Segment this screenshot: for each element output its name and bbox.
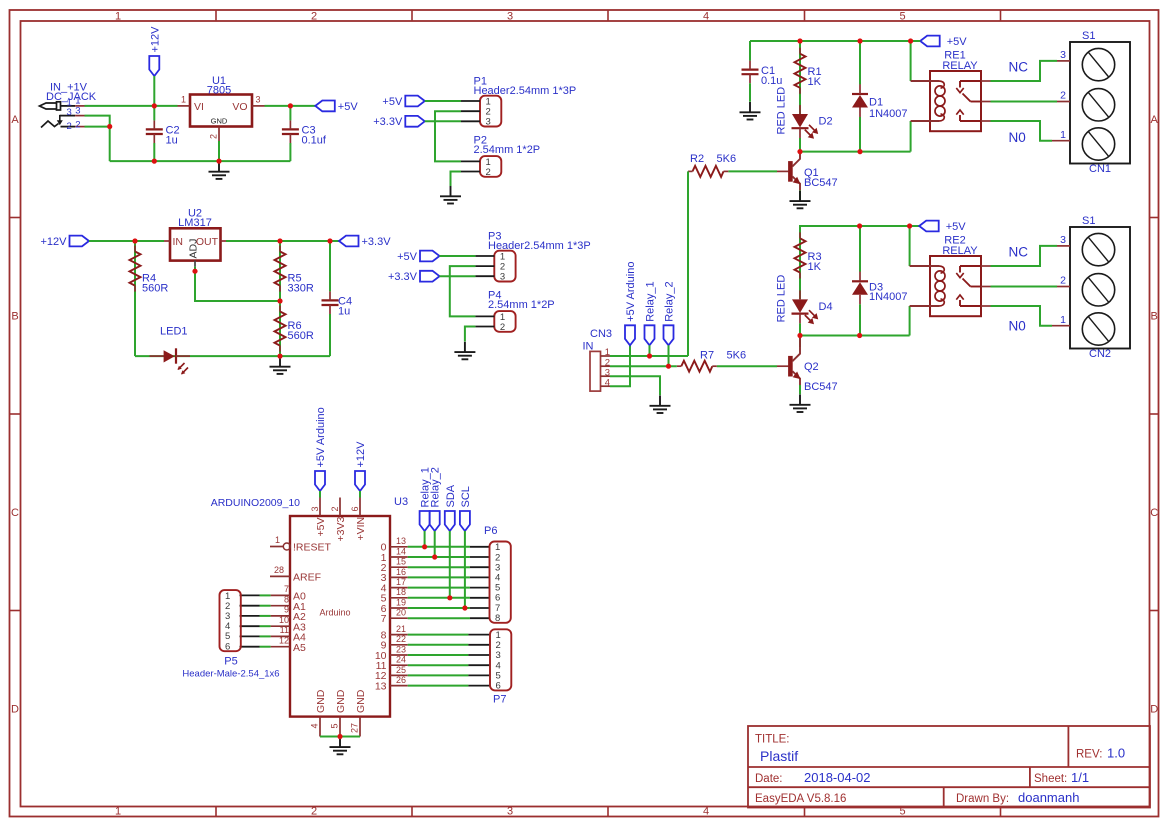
wire jack pin1 to U1: [85, 105, 178, 107]
svg-text:D4: D4: [819, 301, 833, 313]
LED D4 red: [792, 299, 808, 313]
svg-text:3: 3: [507, 10, 513, 22]
capacitor C4: [322, 299, 339, 301]
svg-text:560R: 560R: [142, 283, 168, 295]
wire CN3.3 gnd: [610, 376, 660, 395]
wire coil riser 2 down: [909, 306, 911, 336]
svg-text:4: 4: [310, 723, 320, 728]
wire ADJ: [195, 267, 280, 301]
svg-text:+12V: +12V: [149, 26, 161, 53]
wire Relay_2 drop: [434, 531, 436, 557]
svg-text:CN3: CN3: [590, 328, 612, 340]
net flag Relay_2 cn3: [664, 325, 674, 345]
net flag Relay_1 u3: [420, 511, 430, 531]
wire +5V Arduino pin: [319, 491, 321, 498]
junction SCL row: [462, 605, 467, 610]
svg-text:1u: 1u: [166, 135, 178, 147]
power flag +12V in: [70, 236, 90, 247]
diode D3 1N4007: [852, 280, 868, 282]
svg-text:Relay_1: Relay_1: [645, 281, 657, 321]
svg-text:21: 21: [396, 624, 406, 634]
U3 pin !RESET: [270, 546, 283, 548]
wire CN3.2: [610, 365, 677, 367]
svg-text:+3.3V: +3.3V: [362, 236, 392, 248]
wire Q2 base: [717, 365, 777, 367]
svg-text:CN2: CN2: [1089, 348, 1111, 360]
capacitor C1: [742, 68, 759, 70]
power flag +5V relay1: [920, 36, 940, 47]
wire gnd rail: [110, 160, 291, 162]
connector P6: [490, 542, 511, 623]
svg-text:8: 8: [495, 613, 500, 624]
svg-text:6: 6: [225, 641, 230, 652]
svg-text:D1: D1: [869, 97, 883, 109]
svg-text:+5V: +5V: [315, 518, 327, 537]
wire P2.2 gnd: [451, 172, 462, 187]
wire P4.2 gnd: [465, 327, 476, 342]
svg-text:2.54mm 1*2P: 2.54mm 1*2P: [474, 144, 541, 156]
svg-text:2018-04-02: 2018-04-02: [804, 770, 871, 785]
power flag +5V P3: [420, 251, 440, 262]
ground CN3: [659, 396, 661, 406]
resistor R6: [279, 301, 281, 356]
svg-text:P5: P5: [224, 656, 237, 668]
diode D1 1N4007: [852, 93, 868, 95]
svg-text:2: 2: [311, 806, 317, 818]
wire D4 to Q2: [799, 323, 801, 335]
svg-text:SCL: SCL: [460, 486, 472, 507]
resistor R7: [681, 361, 712, 372]
svg-text:1: 1: [1060, 314, 1066, 326]
svg-text:ADJ: ADJ: [188, 239, 200, 259]
svg-text:3: 3: [500, 272, 505, 283]
svg-text:RED LED: RED LED: [776, 87, 788, 135]
junction R1 rail: [797, 38, 802, 43]
junction R5/R6: [277, 298, 282, 303]
junction R4 top: [132, 238, 137, 243]
svg-text:27: 27: [350, 723, 360, 733]
wire NO 2: [991, 306, 1053, 326]
junction SDA row: [447, 595, 452, 600]
svg-text:TITLE:: TITLE:: [755, 734, 790, 746]
connector CN3: [590, 351, 601, 391]
power flag +3.3V P1: [405, 116, 425, 127]
svg-text:doanmanh: doanmanh: [1018, 790, 1079, 805]
svg-text:5K6: 5K6: [727, 350, 747, 362]
junction Q2 collector: [797, 333, 802, 338]
wire U2 out: [226, 240, 339, 242]
svg-text:2: 2: [500, 322, 505, 333]
power flag +5V P1: [405, 96, 425, 107]
svg-text:SDA: SDA: [445, 484, 457, 507]
svg-text:+3.3V: +3.3V: [388, 271, 418, 283]
junction gnd bus: [337, 734, 342, 739]
svg-text:1K: 1K: [808, 261, 822, 273]
svg-text:3: 3: [67, 107, 72, 118]
wire Relay_1 drop: [424, 531, 426, 547]
svg-text:1.0: 1.0: [1107, 746, 1125, 761]
wire CN3.4: [610, 345, 630, 386]
wire NO 1: [991, 121, 1053, 141]
svg-text:Arduino: Arduino: [319, 608, 350, 618]
svg-text:RELAY: RELAY: [942, 245, 978, 257]
svg-text:Relay_2: Relay_2: [430, 467, 442, 507]
svg-text:4: 4: [703, 806, 709, 818]
svg-text:ARDUINO2009_10: ARDUINO2009_10: [211, 497, 300, 509]
svg-text:GND: GND: [335, 689, 347, 713]
svg-text:+5V: +5V: [382, 96, 403, 108]
resistor R2: [693, 166, 724, 177]
svg-text:IN: IN: [173, 236, 184, 248]
svg-text:Q2: Q2: [804, 361, 819, 373]
svg-text:3: 3: [75, 105, 80, 116]
power flag +12V top: [149, 56, 159, 76]
svg-text:2: 2: [67, 121, 72, 132]
svg-text:D2: D2: [819, 116, 833, 128]
junction Relay_2 flag: [666, 364, 671, 369]
pin stubs P2: [461, 160, 480, 162]
svg-text:N0: N0: [1009, 319, 1026, 334]
svg-text:7: 7: [381, 613, 387, 625]
svg-text:1/1: 1/1: [1071, 770, 1089, 785]
frame division ticks: [215, 10, 217, 21]
junction D1 rail: [857, 38, 862, 43]
wire lower rail 1: [800, 151, 911, 153]
U3 pins A0-A5: [271, 594, 290, 596]
svg-text:1: 1: [275, 535, 280, 545]
svg-text:+3.3V: +3.3V: [373, 116, 403, 128]
terminal S1 CN2: [1070, 227, 1130, 349]
svg-text:+5V: +5V: [946, 221, 967, 233]
svg-text:P7: P7: [493, 694, 506, 706]
svg-text:6: 6: [496, 681, 501, 692]
svg-text:Drawn By:: Drawn By:: [956, 793, 1009, 805]
svg-text:24: 24: [396, 655, 406, 665]
svg-text:5: 5: [899, 10, 905, 22]
svg-text:1: 1: [181, 95, 186, 105]
ground C1: [749, 102, 751, 112]
ground Q1: [799, 191, 801, 201]
transistor Q1 BC547: [777, 170, 788, 172]
svg-text:A5: A5: [293, 642, 306, 654]
wire Q1 base: [728, 170, 777, 172]
svg-text:Sheet:: Sheet:: [1034, 773, 1067, 785]
junction ADJ pin: [192, 269, 197, 274]
svg-text:0.1uf: 0.1uf: [302, 135, 327, 147]
wire +5V P3: [440, 255, 476, 257]
svg-text:GND: GND: [355, 689, 367, 713]
wire Relay_2 stub: [668, 345, 670, 366]
wire R2 down to CN3: [687, 171, 689, 356]
wire Relay_1 stub: [649, 345, 651, 356]
svg-text:2: 2: [209, 134, 219, 139]
svg-text:EasyEDA V5.8.16: EasyEDA V5.8.16: [755, 793, 846, 805]
svg-text:4: 4: [703, 10, 709, 22]
svg-text:26: 26: [396, 675, 406, 685]
regulator U1 7805: [190, 95, 252, 127]
svg-text:B: B: [1151, 311, 1158, 323]
svg-text:1: 1: [115, 806, 121, 818]
wire U1 gnd: [218, 141, 220, 161]
connector P2: [480, 156, 501, 177]
power flag +5V relay2: [919, 221, 939, 232]
wire +5V P1: [425, 100, 461, 102]
svg-text:+5V: +5V: [947, 36, 968, 48]
svg-text:0.1u: 0.1u: [761, 75, 782, 87]
svg-text:Date:: Date:: [755, 773, 783, 785]
svg-text:3: 3: [1060, 234, 1066, 246]
svg-text:1N4007: 1N4007: [869, 108, 908, 120]
svg-text:D: D: [11, 704, 19, 716]
pin stubs P4: [475, 315, 494, 317]
connector P3: [494, 251, 515, 282]
svg-text:GND: GND: [211, 117, 228, 126]
pin stubs P1: [461, 100, 480, 102]
net flag +12V top: [355, 471, 365, 491]
svg-text:P6: P6: [484, 525, 497, 537]
power flag +5V out: [315, 101, 335, 112]
wire P3.2 to P4.1: [450, 266, 476, 316]
wire P1.2 to P2.1: [435, 111, 461, 161]
svg-text:19: 19: [396, 597, 406, 607]
svg-text:3: 3: [310, 506, 320, 511]
svg-text:3: 3: [1060, 49, 1066, 61]
svg-text:12: 12: [279, 636, 289, 646]
wire CN3.1: [610, 355, 688, 357]
svg-text:+12V: +12V: [355, 441, 367, 468]
wire +5V rail 2: [800, 226, 919, 238]
relay RE1: [930, 71, 981, 131]
capacitor C2: [146, 128, 163, 130]
svg-text:2: 2: [1060, 275, 1066, 287]
svg-text:6: 6: [350, 506, 360, 511]
connector P7: [490, 629, 511, 690]
ground P4: [464, 342, 466, 352]
svg-text:S1: S1: [1082, 215, 1095, 227]
junction D3 rail: [857, 223, 862, 228]
svg-text:R2: R2: [690, 153, 704, 165]
wire gnd bus: [320, 736, 360, 738]
svg-text:1: 1: [115, 10, 121, 22]
connector P4: [494, 311, 515, 332]
svg-text:LM317: LM317: [178, 217, 212, 229]
svg-text:330R: 330R: [288, 283, 314, 295]
wire COM 2: [991, 286, 1058, 288]
wire +12V to U2: [89, 240, 164, 242]
wire NC 1: [991, 61, 1058, 81]
resistor R3: [799, 226, 801, 299]
svg-text:7805: 7805: [207, 85, 231, 97]
svg-text:2: 2: [486, 167, 491, 178]
junction D3 bottom: [857, 333, 862, 338]
svg-text:C: C: [11, 507, 19, 519]
svg-text:2: 2: [75, 119, 80, 130]
svg-text:BC547: BC547: [804, 381, 838, 393]
svg-text:5: 5: [330, 723, 340, 728]
junction pin2-riser: [107, 124, 112, 129]
svg-text:+5V Arduino: +5V Arduino: [315, 407, 327, 467]
wires P5 to U3: [240, 594, 260, 596]
svg-text:U3: U3: [394, 496, 408, 508]
junction Relay_2 row: [432, 554, 437, 559]
svg-text:S1: S1: [1082, 30, 1095, 42]
svg-text:2: 2: [1060, 90, 1066, 102]
svg-text:10: 10: [279, 615, 289, 625]
svg-text:R7: R7: [700, 350, 714, 362]
junction Q1 collector: [797, 149, 802, 154]
svg-text:+VIN: +VIN: [355, 517, 367, 541]
svg-text:13: 13: [396, 536, 406, 546]
svg-text:13: 13: [375, 680, 387, 692]
junction coil riser 2: [907, 223, 912, 228]
wire jack pin2: [85, 126, 110, 128]
svg-text:RED LED: RED LED: [776, 275, 788, 323]
junction C2 bottom: [152, 159, 157, 164]
ground Q2: [799, 395, 801, 405]
wire D2 to Q1: [799, 138, 801, 152]
svg-text:1N4007: 1N4007: [869, 291, 908, 303]
svg-text:CN1: CN1: [1089, 163, 1111, 175]
svg-text:GND: GND: [315, 689, 327, 713]
net flag SCL: [460, 511, 470, 531]
svg-text:!RESET: !RESET: [293, 542, 332, 554]
svg-text:3: 3: [507, 806, 513, 818]
svg-text:16: 16: [396, 567, 406, 577]
wire led rail: [135, 355, 330, 357]
wire Q2 emitter gnd: [799, 385, 801, 394]
IC U3 body: [290, 516, 390, 717]
U3 top pins: [319, 498, 321, 517]
wire +12V to node: [153, 76, 155, 106]
net flag SDA: [445, 511, 455, 531]
svg-text:+5V: +5V: [397, 251, 418, 263]
svg-text:D: D: [1150, 704, 1158, 716]
svg-text:18: 18: [396, 587, 406, 597]
svg-text:C: C: [1150, 507, 1158, 519]
svg-text:5K6: 5K6: [717, 153, 737, 165]
svg-text:Relay_2: Relay_2: [664, 281, 676, 321]
ground U3: [339, 737, 341, 747]
junction +12V/C2: [152, 103, 157, 108]
junction U1 gnd: [216, 159, 221, 164]
svg-text:+5V Arduino: +5V Arduino: [625, 262, 637, 322]
svg-text:14: 14: [396, 546, 406, 556]
junction coil riser top: [908, 38, 913, 43]
ground P2: [450, 186, 452, 196]
svg-text:7: 7: [284, 584, 289, 594]
connector P5: [220, 590, 241, 651]
svg-text:20: 20: [396, 608, 406, 618]
svg-text:25: 25: [396, 665, 406, 675]
power flag +3.3V P3: [420, 271, 440, 282]
terminal S1 CN1: [1070, 42, 1130, 164]
wire NC 2: [991, 246, 1058, 266]
junction R5 top: [277, 238, 282, 243]
svg-text:AREF: AREF: [293, 572, 321, 584]
LED D2 red: [792, 114, 808, 128]
svg-text:B: B: [11, 311, 18, 323]
wire SCL drop: [464, 531, 466, 608]
svg-text:22: 22: [396, 634, 406, 644]
svg-text:Plastif: Plastif: [760, 748, 798, 764]
net flag +5V Arduino cn3: [625, 325, 635, 345]
svg-text:1u: 1u: [338, 306, 350, 318]
svg-text:NC: NC: [1009, 60, 1029, 75]
junction D1 bottom: [857, 149, 862, 154]
svg-text:N0: N0: [1009, 130, 1026, 145]
svg-text:A: A: [11, 114, 19, 126]
power flag +3.3V out: [339, 236, 359, 247]
svg-text:A: A: [1151, 114, 1159, 126]
svg-text:1: 1: [1060, 129, 1066, 141]
regulator U2 LM317: [170, 228, 221, 260]
wire +12V pin: [359, 491, 361, 498]
svg-text:28: 28: [274, 565, 284, 575]
wire SDA drop: [449, 531, 451, 598]
title block box: [748, 726, 1150, 808]
svg-text:BC547: BC547: [804, 177, 838, 189]
ground LM317: [279, 356, 281, 366]
svg-text:Header-Male-2.54_1x6: Header-Male-2.54_1x6: [182, 669, 279, 680]
wire U1 out: [265, 105, 316, 107]
wire +5V rail 1: [750, 40, 920, 42]
svg-text:VI: VI: [194, 101, 204, 113]
net flag Relay_2 u3: [430, 511, 440, 531]
svg-text:2: 2: [330, 506, 340, 511]
svg-text:VO: VO: [232, 101, 247, 113]
capacitor C3: [282, 128, 299, 130]
svg-text:1K: 1K: [808, 76, 822, 88]
svg-text:4: 4: [605, 377, 610, 388]
junction Relay_1 row: [422, 544, 427, 549]
svg-text:3: 3: [486, 117, 491, 128]
svg-text:9: 9: [284, 605, 289, 615]
svg-text:17: 17: [396, 577, 406, 587]
transistor Q2 BC547: [799, 336, 801, 348]
U3 gnd pins: [319, 717, 321, 737]
connector P1: [480, 96, 501, 127]
wire +3.3V P1: [425, 120, 461, 122]
svg-text:REV:: REV:: [1076, 749, 1102, 761]
junction Relay_1 flag: [647, 353, 652, 358]
svg-text:2: 2: [311, 10, 317, 22]
wire flag1 stub: [911, 40, 921, 42]
wire coil riser up: [910, 41, 912, 81]
wire +3.3V P3: [440, 275, 476, 277]
svg-text:2.54mm 1*2P: 2.54mm 1*2P: [488, 299, 555, 311]
svg-text:LED1: LED1: [160, 326, 188, 338]
svg-text:+3V3: +3V3: [335, 517, 347, 542]
junction C3 top: [288, 103, 293, 108]
svg-text:3: 3: [256, 95, 261, 105]
U3 pin AREF: [270, 575, 290, 577]
svg-text:+5V: +5V: [338, 101, 359, 113]
svg-text:23: 23: [396, 644, 406, 654]
connector J1 DC JACK: [40, 103, 58, 109]
pin stubs P3: [475, 255, 494, 257]
wire lower rail 2: [800, 335, 910, 337]
LED LED1: [164, 350, 175, 362]
relay RE2: [930, 256, 981, 316]
junction C4 top: [327, 238, 332, 243]
wire coil riser 2 up: [909, 226, 911, 266]
svg-text:+12V: +12V: [41, 236, 68, 248]
wire COM 1: [991, 101, 1058, 103]
svg-text:RELAY: RELAY: [942, 60, 978, 72]
svg-text:NC: NC: [1009, 245, 1029, 260]
resistor R5: [279, 241, 281, 301]
resistor R1: [799, 41, 801, 114]
